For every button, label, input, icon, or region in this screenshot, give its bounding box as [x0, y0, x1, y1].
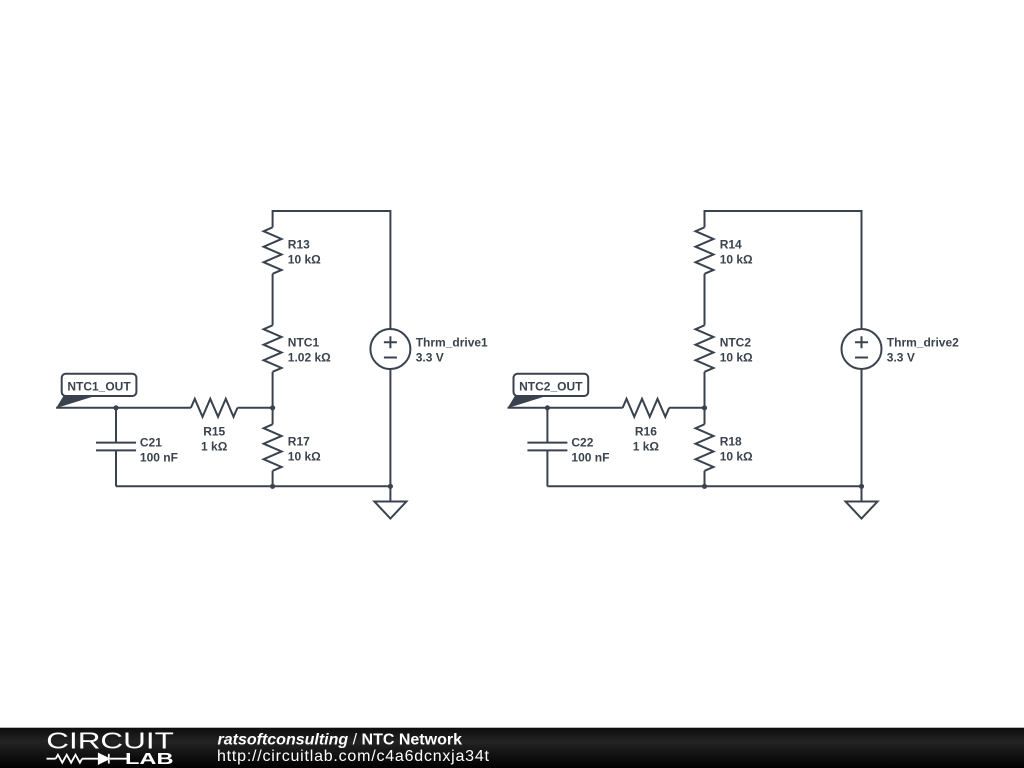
wire: R16 to node B — [669, 407, 704, 409]
svg-text:R151 kΩ: R151 kΩ — [201, 424, 228, 453]
resistor R18 — [696, 424, 714, 471]
wire: R17 bottom lead — [272, 471, 274, 487]
resistor R13 — [264, 227, 282, 274]
voltage source V2 plus sign — [855, 336, 868, 348]
wire: NTC1 to node A — [272, 372, 274, 425]
logo wire — [47, 758, 128, 760]
wire: left bottom rail — [116, 485, 390, 487]
wire: NTC2 to node B — [704, 372, 706, 425]
ground GND2 stem — [861, 486, 863, 501]
svg-text:NTC11.02 kΩ: NTC11.02 kΩ — [288, 336, 331, 365]
footer bar background — [0, 728, 1024, 768]
svg-text:R1310 kΩ: R1310 kΩ — [288, 238, 321, 267]
node: left bottom rail source dot — [388, 484, 393, 489]
voltage source V2 Thrm_drive2 circle — [842, 329, 882, 369]
wire: right source branch top — [861, 210, 863, 329]
svg-text:C21100 nF: C21100 nF — [140, 436, 178, 465]
wire: C21 bottom lead — [115, 450, 117, 486]
node: left bottom rail R17 dot — [270, 484, 275, 489]
svg-text:R161 kΩ: R161 kΩ — [633, 424, 660, 453]
net flag NTC2_OUT tail — [508, 396, 545, 408]
node: C22 junction dot — [545, 405, 550, 410]
wire: right top rail — [705, 210, 862, 212]
wire: R13 top lead — [272, 210, 274, 227]
wire: right output wire from flag to node B — [508, 407, 623, 409]
wire: right bottom rail — [547, 485, 861, 487]
net flag NTC1_OUT tail — [56, 396, 93, 408]
wire: R13 to NTC1 — [272, 274, 274, 326]
wire: C22 bottom lead — [546, 450, 548, 486]
node: C21 junction dot — [113, 405, 118, 410]
resistor R16 — [623, 399, 670, 417]
wire: right source branch bottom — [861, 369, 863, 486]
wire: R18 bottom lead — [704, 471, 706, 487]
voltage source V1 minus sign — [384, 357, 397, 359]
ground GND1 triangle — [374, 502, 406, 519]
svg-text:R1410 kΩ: R1410 kΩ — [720, 238, 753, 267]
node B: R16/R18 junction dot — [702, 405, 707, 410]
capacitor C22 plates — [527, 443, 567, 451]
node: right bottom rail R18 dot — [702, 484, 707, 489]
wire: left source branch bottom — [389, 369, 391, 486]
resistor NTC1 — [264, 325, 282, 372]
svg-text:NTC1_OUT: NTC1_OUT — [67, 380, 131, 394]
resistor R15 — [191, 399, 238, 417]
svg-text:R1710 kΩ: R1710 kΩ — [288, 435, 321, 464]
svg-text:http://circuitlab.com/c4a6dcnx: http://circuitlab.com/c4a6dcnxja34t — [217, 748, 490, 765]
svg-text:CIRCUIT: CIRCUIT — [46, 728, 174, 754]
wire: left output wire from flag to node A — [56, 407, 191, 409]
wire: C22 top lead — [546, 408, 548, 443]
net flag NTC1_OUT box — [62, 374, 137, 396]
svg-text:NTC2_OUT: NTC2_OUT — [519, 380, 583, 394]
wire: left top rail — [273, 210, 391, 212]
capacitor C21 plates — [96, 443, 136, 451]
wire: R14 to NTC2 — [704, 274, 706, 326]
wire: C21 top lead — [115, 408, 117, 443]
ground GND1 stem — [389, 486, 391, 501]
svg-text:ratsoftconsulting / NTC Networ: ratsoftconsulting / NTC Network — [218, 732, 463, 749]
wire: R14 top lead — [704, 210, 706, 227]
voltage source V1 Thrm_drive1 circle — [370, 329, 410, 369]
logo diode — [99, 754, 109, 764]
logo resistor zigzag — [56, 755, 82, 763]
voltage source V1 plus sign — [384, 336, 397, 348]
wire: left source branch top — [389, 210, 391, 329]
svg-text:R1810 kΩ: R1810 kΩ — [720, 435, 753, 464]
svg-text:NTC210 kΩ: NTC210 kΩ — [720, 336, 753, 365]
node: right bottom rail source dot — [859, 484, 864, 489]
voltage source V2 minus sign — [855, 357, 868, 359]
node A: R15/R17 junction dot — [270, 405, 275, 410]
wire: R15 to node A — [237, 407, 272, 409]
resistor NTC2 — [696, 325, 714, 372]
svg-text:Thrm_drive23.3 V: Thrm_drive23.3 V — [887, 335, 959, 364]
resistor R17 — [264, 424, 282, 471]
ground GND2 triangle — [846, 502, 878, 519]
svg-text:LAB: LAB — [125, 751, 174, 768]
resistor R14 — [696, 227, 714, 274]
svg-text:C22100 nF: C22100 nF — [571, 436, 609, 465]
net flag NTC2_OUT box — [514, 374, 589, 396]
svg-text:Thrm_drive13.3 V: Thrm_drive13.3 V — [416, 335, 488, 364]
